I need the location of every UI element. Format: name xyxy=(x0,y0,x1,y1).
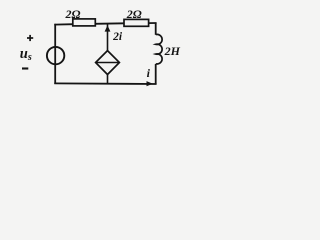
wire top-middle segment xyxy=(95,22,125,25)
dependent source branch lower wire xyxy=(107,75,109,84)
inductor L1 top lead xyxy=(155,23,157,35)
dependent source D1 diamond xyxy=(96,51,120,75)
wire bottom xyxy=(54,82,156,85)
resistor R1 box xyxy=(73,19,96,26)
current arrow i on bottom wire xyxy=(147,81,153,86)
voltage source U1 circle xyxy=(47,47,64,64)
wire top-left segment xyxy=(54,23,73,25)
inductor L1 coil xyxy=(156,34,162,64)
dependent source bar xyxy=(96,62,120,64)
wire top-right segment xyxy=(148,22,157,24)
svg-text:2i: 2i xyxy=(112,31,123,43)
background xyxy=(0,0,196,96)
dependent source branch upper wire xyxy=(107,24,109,52)
voltage source branch wire (left) xyxy=(54,24,56,84)
resistor R2 box xyxy=(124,19,149,26)
inductor L1 bottom lead xyxy=(155,64,157,84)
svg-text:2Ω: 2Ω xyxy=(126,7,142,21)
label - (source polarity) xyxy=(22,67,28,69)
svg-text:2H: 2H xyxy=(164,44,181,58)
svg-text:2Ω: 2Ω xyxy=(65,7,81,21)
label + (source polarity) xyxy=(27,35,33,41)
arrow 2i (arrowhead up) xyxy=(105,25,111,31)
